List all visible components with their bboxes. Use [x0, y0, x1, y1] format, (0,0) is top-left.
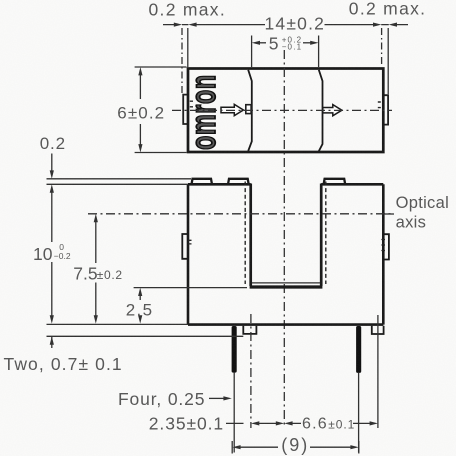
6.6 dim line: [292, 422, 371, 424]
slot hidden dash left: [244, 182, 246, 285]
top view horizontal centerline: [172, 109, 392, 111]
2.5 dimension vertical: [139, 295, 141, 318]
right standoff foot: [372, 326, 384, 334]
optical axis label leader: [384, 213, 395, 215]
ext solid right bump: [387, 28, 389, 94]
top view right lens bump: [384, 95, 388, 124]
left pin: [232, 326, 237, 373]
top view left mold line: [248, 70, 252, 151]
(9) tick right: [358, 441, 360, 454]
front view outline: [188, 184, 383, 324]
5-dim ext right: [318, 36, 320, 68]
left foot centerline: [250, 314, 252, 428]
slot hidden dash right: [325, 182, 327, 285]
top view emitter element box: [246, 105, 251, 114]
slot right wall: [320, 184, 323, 287]
dim line right of 14 text: [325, 24, 375, 26]
0.2/10 dimension vertical: [51, 154, 53, 349]
dim line between text and body left: [196, 24, 265, 26]
Four 0.25 leader: [209, 397, 224, 399]
top view hidden lens dashes right: [378, 102, 381, 108]
6-dim ext bottom: [135, 152, 187, 154]
ext dash-dot right body edge: [381, 28, 383, 67]
0.2 step: upper ext line (tab tops): [47, 178, 192, 180]
slot bottom: [250, 285, 323, 288]
top view body outline: [188, 69, 383, 153]
2.5 ext line (slot bottom): [134, 287, 247, 289]
0.2 step: lower ext line (main top): [47, 183, 189, 185]
top view hidden lens dashes left: [190, 101, 193, 107]
6-dim ext top: [135, 66, 187, 68]
2.35 dim line: [226, 422, 277, 424]
arrowheads top area: [174, 23, 182, 27]
slot left wall: [249, 184, 252, 287]
top view detector arrow (right): [323, 105, 342, 116]
front lens bump left: [182, 234, 187, 259]
left pin centerline: [233, 372, 235, 452]
top view emitter arrow (left): [221, 104, 243, 115]
7.5 dimension vertical: [95, 221, 97, 316]
lens ticks left: [189, 240, 192, 244]
top view right mold line: [319, 70, 323, 151]
left standoff foot: [243, 326, 256, 334]
slot bottom chamfer line: [252, 282, 320, 284]
top view left lens bump: [183, 95, 187, 124]
optical axis line: [88, 213, 394, 215]
front lens bump right: [384, 234, 389, 259]
vertical centerline (both views): [283, 50, 285, 428]
feet bottom ext line: [47, 335, 244, 337]
front arrowheads: [50, 170, 54, 178]
right pin: [356, 326, 361, 373]
dim 0.2max right segment: [381, 24, 408, 26]
body bottom ext line: [47, 323, 189, 325]
5-dim ext left: [251, 36, 253, 68]
right foot centerline: [377, 315, 379, 428]
ext dash-dot left bump: [181, 28, 183, 93]
ext solid left body edge: [187, 28, 189, 67]
5-dim line left: [259, 42, 266, 44]
5-dim line right: [303, 42, 311, 44]
lens ticks right: [381, 240, 385, 251]
dim 14±0.2 line left segment: [163, 24, 188, 26]
right pin centerline: [358, 372, 360, 452]
(9) dim line: [240, 446, 352, 448]
front top tabs: [192, 179, 346, 185]
(9) tick left: [231, 441, 233, 454]
6-dim vertical line: [139, 74, 141, 146]
